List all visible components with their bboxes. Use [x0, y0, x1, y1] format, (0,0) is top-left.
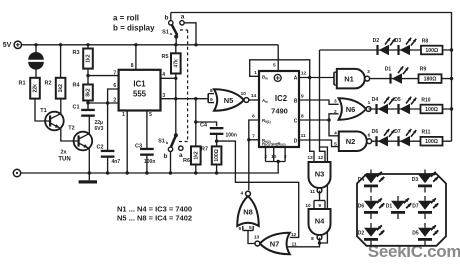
svg-text:3: 3 [334, 99, 337, 105]
label N3 pin numbers [307, 155, 323, 195]
wire pin3 node to R6 [195, 99, 197, 147]
svg-text:D2: D2 [358, 231, 365, 237]
LED D7 (panel) [412, 196, 438, 219]
svg-text:6: 6 [113, 83, 116, 89]
svg-text:6: 6 [238, 226, 241, 232]
switch S1b contact a [179, 146, 183, 159]
svg-text:D7: D7 [394, 129, 401, 135]
svg-text:D7: D7 [412, 204, 419, 210]
label IC1 pin numbers [113, 63, 165, 118]
svg-text:N3: N3 [315, 170, 325, 179]
node junction R2 / rail [59, 43, 62, 46]
svg-text:11: 11 [301, 133, 306, 139]
LED D4 (panel) [358, 170, 384, 193]
LED D1 [385, 66, 408, 83]
svg-text:D5: D5 [412, 231, 419, 237]
svg-text:N4: N4 [315, 217, 325, 226]
label N4 output pin 8 [311, 236, 314, 242]
svg-text:8: 8 [131, 63, 134, 69]
svg-text:0(2): 0(2) [280, 142, 285, 146]
label N7 pin numbers [254, 232, 297, 248]
ic IC2 7490 decade counter [259, 71, 299, 147]
node 0V terminal [13, 169, 20, 176]
svg-text:TUN: TUN [58, 157, 70, 163]
svg-text:D1: D1 [385, 67, 392, 73]
svg-text:100Ω: 100Ω [425, 139, 438, 145]
svg-text:S1: S1 [158, 139, 165, 145]
wire IC1 pin 6 jog [108, 89, 119, 151]
svg-text:D6: D6 [372, 129, 379, 135]
svg-text:N1 ... N4 = IC3 = 7400: N1 ... N4 = IC3 = 7400 [117, 205, 192, 214]
node junction pin3 / R6 [194, 97, 197, 100]
svg-text:6V3: 6V3 [95, 126, 104, 132]
svg-text:R10: R10 [421, 98, 430, 104]
svg-text:5: 5 [149, 112, 152, 118]
svg-text:C: C [294, 118, 298, 124]
resistor R8 [421, 39, 443, 55]
node junction pin7 / N8 line [247, 138, 250, 141]
svg-text:0(1): 0(1) [265, 142, 270, 146]
svg-text:7490: 7490 [271, 107, 288, 116]
svg-text:R11: R11 [422, 130, 431, 136]
wire C2 to ground [107, 156, 109, 173]
node junction R3 / rail [86, 43, 89, 46]
node junction N4 output / row1 net [318, 241, 321, 244]
svg-text:IC1: IC1 [133, 80, 146, 89]
svg-text:10: 10 [241, 91, 247, 97]
gate N4 (7400 NAND vertical) [309, 209, 331, 240]
resistor R9 [419, 67, 442, 83]
svg-text:2: 2 [113, 97, 116, 103]
svg-text:N7: N7 [270, 240, 280, 249]
wire N4 output to N7 input 11 [288, 238, 320, 247]
LED D2 [373, 38, 395, 55]
svg-text:D2: D2 [373, 38, 380, 44]
svg-text:1: 1 [254, 70, 257, 76]
svg-text:9: 9 [210, 97, 213, 103]
resistor R7 [201, 146, 221, 164]
resistor R3 [72, 49, 92, 69]
wire C4-R7 node to N7 input 12 [217, 141, 299, 237]
node junction S1a contact a / rail [194, 43, 197, 46]
svg-text:47k: 47k [173, 59, 179, 68]
wire R3 to R4 [87, 69, 89, 85]
gate N5 (7402 NOR) [214, 89, 249, 111]
wire output B to N6 pin 3 [299, 100, 339, 104]
LED D7 [394, 129, 416, 146]
LED D4 [372, 97, 394, 114]
svg-text:4: 4 [240, 191, 243, 197]
svg-text:b: b [164, 153, 168, 160]
gate N3 (7400 NAND vertical) [309, 162, 331, 193]
svg-text:8: 8 [301, 114, 304, 120]
svg-text:N8: N8 [243, 208, 253, 217]
LED D5 (panel) [412, 223, 438, 246]
ground symbol [79, 173, 97, 184]
LED D5 [394, 97, 416, 114]
svg-text:C4: C4 [200, 123, 208, 129]
wire N7 output to N8 inputs [248, 231, 255, 244]
svg-text:7: 7 [252, 134, 255, 140]
svg-text:7: 7 [113, 70, 116, 76]
label N4 input pin numbers [305, 203, 321, 209]
wire +5V rail [22, 44, 279, 46]
svg-text:T1: T1 [40, 108, 46, 114]
svg-text:14: 14 [251, 93, 257, 99]
wire rail to R3 [87, 45, 89, 49]
node junction R6 / ground rail [194, 171, 197, 174]
resistor R6 [183, 146, 201, 164]
watermark SeekIC.com [368, 242, 460, 261]
svg-text:A: A [294, 75, 298, 81]
switch S1b lever [158, 133, 178, 147]
switch S1b contact b [164, 147, 173, 160]
gate N5 input bracket [207, 88, 214, 103]
switch S1a lever [162, 25, 178, 39]
wire IC1 pin 5 to C3 [146, 111, 148, 149]
wire top LED supply line [171, 13, 452, 51]
transistor T2 [68, 126, 92, 151]
svg-text:D5: D5 [394, 97, 401, 103]
ic IC1 555 timer [119, 70, 161, 111]
svg-text:4: 4 [334, 130, 337, 136]
wire N5 output to IC2 pin 14 [249, 93, 259, 100]
svg-text:C1: C1 [72, 105, 79, 111]
label N6 pin numbers [334, 99, 371, 116]
gate N7 (7402 NOR, output left) [255, 233, 290, 255]
svg-text:R4: R4 [72, 83, 80, 89]
switch S1a contact b [165, 15, 173, 25]
wire IC1 pin 4 to R5 node [161, 77, 176, 79]
node junction IC1 pin1 / ground rail [126, 171, 129, 174]
node junction C3 / ground rail [145, 171, 148, 174]
wire contact b up to top line [170, 13, 172, 21]
svg-text:180Ω: 180Ω [424, 77, 437, 83]
svg-text:R7: R7 [201, 147, 208, 153]
svg-text:R5: R5 [161, 54, 168, 60]
svg-text:b = display: b = display [113, 24, 155, 33]
svg-text:5: 5 [249, 225, 252, 231]
gate N6 (7402 NOR) [339, 98, 371, 120]
wire contact a to rail [184, 23, 196, 45]
node junction R3-R4 / IC1 pin7 [86, 74, 89, 77]
wire ground rail [21, 162, 279, 174]
svg-text:C2: C2 [96, 145, 103, 151]
wire N4 output net vertical to LED row 1 [320, 50, 326, 162]
wire branch to C4 [196, 122, 217, 126]
node +5V supply terminal [3, 41, 22, 49]
wire LED row 2 [370, 78, 452, 80]
svg-text:100n: 100n [226, 133, 237, 139]
capacitor C3 [135, 144, 155, 165]
wire LED row 3 [369, 108, 452, 110]
svg-text:a: a [181, 14, 185, 21]
svg-text:13: 13 [254, 235, 260, 241]
node junction R4-C1 / IC1 pin2 wire [86, 101, 89, 104]
capacitor C1 [72, 105, 103, 132]
wire IC1 pin 8 to rail [135, 45, 137, 70]
svg-text:2x: 2x [60, 150, 67, 156]
svg-text:9(1): 9(1) [265, 120, 271, 124]
wire R4 to C1 [87, 101, 89, 110]
label N5...N8 = IC4 = 7402 [117, 214, 192, 223]
wire rail to R5 [175, 45, 177, 54]
LED D3 (panel) [412, 170, 438, 193]
node junction R5 / pin4 [174, 77, 177, 80]
label N5 output pin 10 [241, 91, 247, 97]
svg-text:D6: D6 [358, 204, 365, 210]
wire feedback branch to N4 output [320, 147, 328, 243]
svg-text:5: 5 [273, 63, 276, 69]
svg-text:22k: 22k [33, 84, 39, 93]
wire IC2 pin 6 to N8 output [249, 120, 259, 190]
gate N1 (7400 NAND) [337, 69, 370, 89]
wire output A to N1 [299, 77, 334, 79]
resistor R4 [72, 83, 92, 101]
capacitor C2 [96, 145, 120, 165]
label N1 output pin 3 [367, 69, 370, 75]
svg-text:R2: R2 [44, 81, 51, 87]
svg-text:N2: N2 [346, 137, 356, 146]
wire LED row 4 [372, 140, 452, 142]
wire R7 to ground [216, 165, 218, 174]
svg-text:5: 5 [334, 141, 337, 147]
svg-text:100Ω: 100Ω [425, 107, 438, 113]
svg-text:R9: R9 [420, 67, 427, 73]
label b = display [113, 24, 155, 33]
wire IC1 pin 1 to ground [126, 111, 128, 174]
svg-text:B: B [294, 98, 298, 104]
svg-text:12: 12 [291, 232, 297, 238]
label a = roll [113, 14, 139, 23]
svg-text:9: 9 [301, 94, 304, 100]
svg-text:D4: D4 [372, 97, 379, 103]
switch mechanical link (dashed) [179, 30, 188, 142]
resistor R5 [161, 53, 180, 73]
resistor R10 [421, 98, 443, 114]
node junction C4-R7 branch [215, 139, 218, 142]
svg-text:1k2: 1k2 [193, 151, 199, 160]
wire touch contact to R1 [35, 70, 37, 78]
svg-text:D4: D4 [358, 177, 365, 183]
svg-text:11: 11 [310, 189, 315, 195]
wire C4 to R7 [216, 133, 218, 146]
wire T1 emitter to T2 base [61, 128, 74, 141]
svg-text:8: 8 [311, 236, 314, 242]
svg-text:N5: N5 [224, 96, 234, 105]
label N2 pin numbers [334, 130, 371, 147]
svg-text:in: in [265, 100, 268, 104]
gate N1 input bracket [334, 67, 341, 86]
node junction IC1 pin8 / rail [134, 43, 137, 46]
svg-text:13: 13 [307, 155, 313, 161]
wire IC1 pin 3 output [161, 98, 207, 100]
node junction A / N3 branch [308, 76, 311, 79]
svg-text:T2: T2 [68, 126, 74, 132]
wire R5 node down to S1b [175, 74, 177, 135]
svg-text:12: 12 [301, 71, 307, 77]
svg-text:4n7: 4n7 [112, 159, 121, 165]
transistor T1 [40, 108, 63, 130]
svg-text:b: b [165, 15, 169, 22]
wire IC1 pin 2 [88, 102, 119, 104]
svg-text:2: 2 [334, 109, 337, 115]
svg-text:8k2: 8k2 [86, 88, 92, 97]
svg-text:D3: D3 [395, 38, 402, 44]
dice display panel outline [357, 174, 446, 246]
LED D6 (panel) [358, 196, 384, 219]
wire N3 output to N4 inputs [314, 191, 325, 209]
svg-text:1k2: 1k2 [58, 84, 64, 93]
wire LED row 1 [320, 49, 452, 51]
node junction R6 wire / C4 branch [194, 120, 197, 123]
wire A down to N3 input 13 [310, 78, 314, 163]
svg-text:D: D [294, 138, 298, 144]
wire to IC1 pin 7 [88, 75, 119, 77]
wire S1b contact b to ground [170, 152, 172, 174]
wire IC2 pin 1 loop from output A [250, 60, 310, 78]
resistor R2 [44, 78, 65, 99]
wire C to N2 pin 4 [329, 120, 339, 136]
svg-text:1k2: 1k2 [86, 54, 92, 63]
wire rail to touch contact [35, 45, 37, 52]
svg-text:S1: S1 [162, 30, 169, 36]
wire C3 to ground [146, 154, 148, 173]
wire R2 to T1 collector [60, 99, 62, 115]
node junction S1b / ground rail [169, 171, 172, 174]
node junction S1a-R5 / rail [174, 43, 177, 46]
LED D2 (panel) [358, 223, 384, 246]
svg-text:C3: C3 [135, 144, 142, 150]
wire T2 emitter to ground [88, 148, 90, 173]
svg-text:R1: R1 [18, 81, 25, 87]
wire IC2 bottom pins to tie bar [266, 147, 286, 162]
label IC2 pin numbers [252, 63, 306, 160]
node junction touch contact / rail [34, 43, 37, 46]
switch S1a contact a [180, 14, 185, 25]
node junction tie bar / ground drop [277, 160, 280, 163]
svg-text:N6: N6 [346, 105, 356, 114]
node junction C2 / ground rail [106, 171, 109, 174]
svg-text:8: 8 [210, 88, 213, 94]
touch contact plates [28, 52, 44, 70]
resistor R1 [18, 78, 39, 99]
svg-text:3: 3 [162, 93, 165, 99]
node junction R7 / ground rail [215, 171, 218, 174]
node junction T2 emitter / ground rail [88, 171, 91, 174]
svg-text:1: 1 [368, 100, 371, 106]
svg-text:R8: R8 [422, 39, 429, 45]
resistor R11 [421, 130, 443, 146]
wire R6 to ground [195, 165, 197, 174]
svg-text:IC2: IC2 [275, 94, 288, 103]
gate N8 (7402 NOR, output up) [237, 191, 259, 226]
svg-text:R6: R6 [183, 158, 190, 164]
label 2x TUN [58, 150, 70, 163]
svg-text:N5 ... N8 = IC4 = 7402: N5 ... N8 = IC4 = 7402 [117, 214, 192, 223]
node junction pin6 / pin2 wire [106, 101, 109, 104]
LED D3 [395, 38, 416, 55]
svg-text:4: 4 [162, 72, 165, 78]
label N1...N4 = IC3 = 7400 [117, 205, 192, 214]
svg-text:6: 6 [368, 132, 371, 138]
label IC2 internal pin names [262, 75, 298, 147]
svg-text:5V: 5V [3, 42, 12, 49]
wire C to N6 pin 2 [329, 114, 339, 120]
wire IC2 pin 7 [249, 139, 259, 141]
svg-text:555: 555 [133, 90, 147, 99]
wire C1 to T2 collector [88, 115, 90, 134]
gate N8 input bracket [238, 225, 253, 232]
svg-text:3: 3 [367, 69, 370, 75]
svg-text:R3: R3 [72, 50, 79, 56]
node junction pin3 wire / S1b drop [174, 97, 177, 100]
wire output D to N2 pin 5 [299, 140, 339, 147]
node junction C branch [327, 118, 330, 121]
svg-text:D3: D3 [412, 177, 419, 183]
wire rail to R2 [60, 45, 62, 78]
wire output C [299, 119, 329, 121]
svg-text:100Ω: 100Ω [425, 48, 438, 54]
svg-text:N1: N1 [344, 74, 354, 83]
svg-text:1: 1 [122, 112, 125, 118]
capacitor C4 [200, 123, 237, 139]
svg-text:6: 6 [252, 114, 255, 120]
wire S1a pivot to rail [175, 37, 177, 45]
LED D1 (panel) [386, 196, 411, 219]
svg-text:100n: 100n [144, 159, 155, 165]
svg-text:a = roll: a = roll [113, 14, 139, 23]
svg-text:11: 11 [291, 241, 296, 247]
svg-text:12: 12 [318, 155, 324, 161]
wire IC2 pin 5 to rail [277, 45, 279, 71]
LED D6 [372, 129, 394, 146]
svg-text:in: in [265, 77, 268, 81]
svg-text:100Ω: 100Ω [214, 149, 220, 161]
wire R1 to T1 base [35, 99, 45, 121]
wire right supply rail [450, 48, 453, 141]
svg-text:D1: D1 [386, 204, 393, 210]
label N8 output pin 4 [240, 191, 243, 197]
gate N2 (7400 NAND) [339, 131, 372, 151]
